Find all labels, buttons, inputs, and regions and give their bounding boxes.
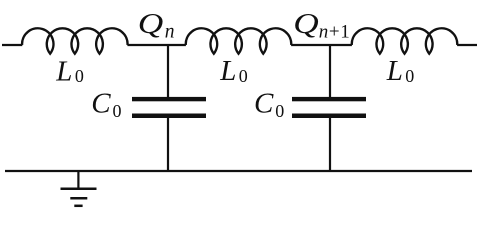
capacitor C0 top plate — [132, 97, 206, 101]
svg-text:C: C — [91, 88, 111, 120]
wire between second inductor and node Qn+1 — [291, 44, 352, 46]
wire ground rail — [5, 170, 472, 172]
wire left lead — [2, 44, 22, 46]
wire capacitor C0 bottom plate to ground rail — [167, 118, 169, 172]
svg-text:L: L — [219, 55, 236, 87]
capacitor C0 (second) top plate — [292, 97, 366, 101]
svg-text:L: L — [386, 55, 403, 87]
svg-text:Q: Q — [138, 8, 164, 40]
wire between first inductor and node Qn — [127, 44, 185, 46]
ground bar 2 — [70, 197, 87, 200]
svg-text:0: 0 — [275, 101, 284, 121]
ground bar 3 — [74, 205, 82, 208]
inductor L0 (first) — [22, 28, 128, 53]
wire right lead — [457, 44, 477, 46]
svg-text:L: L — [55, 56, 72, 88]
ground stub — [77, 171, 79, 188]
svg-text:0: 0 — [75, 66, 84, 86]
svg-text:0: 0 — [239, 66, 248, 86]
capacitor C0 bottom plate — [132, 114, 206, 119]
wire node Qn to capacitor C0 top plate — [167, 44, 169, 98]
svg-text:C: C — [254, 88, 274, 120]
svg-text:n: n — [165, 21, 175, 42]
ground bar 1 — [61, 187, 97, 190]
svg-text:0: 0 — [113, 101, 122, 121]
inductor L0 (third) — [352, 28, 458, 53]
svg-text:Q: Q — [293, 8, 319, 40]
svg-text:n+1: n+1 — [319, 21, 351, 42]
svg-text:0: 0 — [405, 66, 414, 86]
inductor L0 (second) — [186, 28, 292, 53]
wire second capacitor bottom plate to ground rail — [329, 118, 331, 172]
capacitor C0 (second) bottom plate — [292, 114, 366, 119]
wire node Qn+1 to second capacitor top plate — [329, 44, 331, 98]
